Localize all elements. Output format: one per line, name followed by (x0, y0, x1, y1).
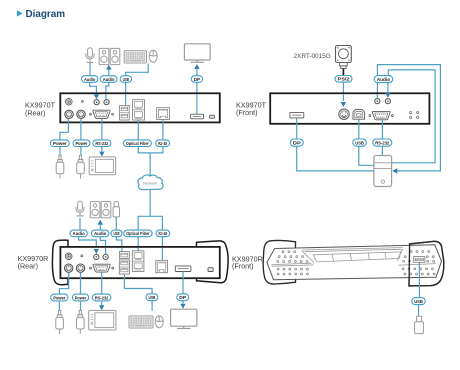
svg-text:(Front): (Front) (232, 262, 254, 271)
wire power socket 2 to Power pill (80, 119, 82, 140)
wire Audio pill to audio-out jack R (100, 237, 105, 247)
wire tail to front jack1 (376, 94, 378, 98)
wire junction to Optical Fiber pill (R) (138, 216, 150, 230)
power socket 2 R-rear (DC power socket) (76, 264, 84, 272)
audio-in jack R-rear (audio jack) (94, 254, 99, 259)
wire monitor arrow line (196, 69, 198, 75)
RS-232 DB9 T-rear (DB9 serial port) (89, 110, 113, 118)
label pill "USB" (usb pill top) (120, 76, 131, 83)
label pill "USB" (usb pill R top) (111, 230, 122, 237)
wire DP pill to DP port (196, 82, 198, 93)
power socket 1 T-rear (DC power socket) (65, 110, 73, 118)
grounding terminal R-rear (grounding terminal) (65, 253, 72, 260)
left ventilation dot grid (277, 251, 309, 275)
keyboard (bottom group) (keyboard icon) (129, 316, 153, 328)
audio-out jack R-rear (audio jack) (103, 254, 108, 259)
monitor DP (top group) (monitor icon) (184, 44, 210, 63)
svg-text:Diagram: Diagram (26, 9, 66, 20)
svg-text:Audio: Audio (73, 231, 85, 237)
label pill "RS-232" (rs232 pill R) (92, 294, 111, 301)
USB flash drive (bottom-right) (USB flash drive icon) (415, 316, 424, 333)
svg-text:RS-232: RS-232 (375, 140, 389, 146)
label pill "Audio" (audio spk pill R) (92, 230, 109, 237)
svg-text:USB: USB (414, 299, 423, 305)
DP port T-rear (DisplayPort) (191, 114, 204, 119)
microphone (top group) (microphone icon) (86, 48, 94, 63)
title bullet (17, 10, 23, 16)
wire DP pill to monitor R (182, 301, 184, 304)
DP port R-rear (DisplayPort) (175, 266, 191, 272)
device KX9970R (Rear) left wing (52, 240, 68, 285)
wire USB pill to computer (359, 146, 374, 165)
label pill "Audio" (audio mic pill R) (70, 230, 87, 237)
wire tail to audio-out jack T-rear (105, 94, 107, 99)
svg-text:RJ-45: RJ-45 (159, 231, 168, 237)
arrowhead to monitor (194, 64, 199, 69)
front grille band (272, 248, 437, 267)
arrowhead into front jack2 (385, 93, 390, 98)
wire RJ-45 pill to junction (150, 147, 163, 153)
arrowhead to speakers 2 (98, 220, 103, 225)
RJ-45 port R-rear (RJ-45 LAN port) (156, 260, 168, 272)
power adapter 2 (top group) (power adapter plug icon) (77, 155, 85, 178)
RS-232 DB9 T-front (DB9 serial port) (369, 111, 393, 119)
RS-232 DB9 R-rear (DB9 serial port) (90, 264, 114, 272)
DP port T-front (DisplayPort) (290, 112, 304, 118)
svg-text:USB: USB (355, 140, 364, 146)
svg-text:DP: DP (194, 77, 201, 83)
wire audio line A up-over-right (377, 65, 440, 171)
wire DP R to DP pill (182, 272, 184, 294)
wire RS-232 pill to computer top (381, 146, 383, 155)
arrowhead into monitor R (180, 304, 185, 309)
label pill "PS/2" (ps2 pill) (335, 76, 352, 83)
mouse (top group) (mouse icon) (149, 50, 157, 62)
svg-text:Power: Power (76, 141, 88, 147)
wire DB9 to RS-232 pill (101, 119, 103, 140)
wire DB9 R to RS-232 pill (101, 272, 103, 294)
USB-B port T-front (USB type-B port) (353, 110, 365, 120)
label pill "DP" (dp pill top) (191, 76, 202, 83)
wire Audio pill to audio-in jack (90, 82, 97, 93)
PS/2 cable (342, 69, 344, 76)
label pill "DP" (dp pill R) (177, 294, 189, 301)
svg-text:(Rear): (Rear) (18, 262, 38, 271)
wire audio line B up-over-right (388, 70, 435, 163)
wire tail to USB ports T-rear (125, 94, 127, 105)
wire mic2 to Audio pill (79, 218, 81, 230)
svg-text:Optical Fiber: Optical Fiber (126, 231, 150, 236)
wire Audio pill to audio-in jack R (79, 237, 97, 247)
svg-text:Network: Network (143, 181, 157, 186)
reset pinhole T-rear (82, 101, 84, 103)
svg-text:(Rear): (Rear) (25, 108, 45, 117)
audio-in jack T-rear (audio jack) (94, 100, 99, 105)
speaker L (bottom group) (speaker icon) (90, 202, 100, 218)
svg-text:DP: DP (179, 295, 187, 301)
device KX9970T (Rear) chassis (60, 93, 220, 122)
svg-text:USB: USB (123, 77, 130, 83)
svg-text:Power: Power (53, 295, 65, 301)
svg-text:Power: Power (53, 141, 67, 147)
audio-out jack T-rear (audio jack) (104, 100, 109, 105)
label pill "Optical Fiber" (optical fiber pill T) (123, 140, 151, 147)
wire front USB port to USB pill (418, 263, 420, 298)
speaker L (top group) (speaker icon) (99, 48, 109, 64)
wire tail to USB port R-rear (121, 248, 123, 252)
wire USB pill to flash drive (418, 305, 420, 316)
arrowhead into PS/2 port (341, 102, 346, 107)
svg-text:Optical Fiber: Optical Fiber (126, 141, 149, 146)
wire power socket 1R to Power pill (59, 273, 68, 294)
wire RJ45 to RJ-45 pill (162, 120, 164, 140)
arrowhead into audio-in jack R-rear (94, 249, 99, 254)
wire Audio pill to audio-out jack (106, 82, 109, 93)
svg-text:RS-232: RS-232 (95, 141, 108, 147)
wire USB pill to USB ports (125, 82, 127, 93)
device KX9970R (Front) right wing outline redraw (409, 241, 444, 286)
grounding terminal T-rear (grounding terminal) (66, 98, 73, 105)
device KX9970R (Front) face (267, 245, 442, 280)
PS/2 port T-front (PS/2 port) (339, 109, 349, 119)
arrowhead into audio-in jack T-rear (94, 94, 99, 99)
wire junction to RJ-45 pill (R) (150, 216, 162, 230)
label pill "Audio" (audio pill front) (374, 76, 393, 83)
wire Power pill to plug 2 (80, 147, 82, 156)
wire fiber to Optical Fiber pill (137, 120, 139, 140)
wire tail to PS/2 port (342, 94, 344, 101)
arrowhead into touch panel R (99, 305, 104, 310)
front audio jack 2 (audio jack) (385, 99, 390, 104)
speaker R (top group) (speaker icon) (110, 48, 120, 64)
wire USB-B to USB pill front (358, 119, 360, 138)
svg-text:Audio: Audio (377, 77, 391, 83)
power adapter 1 (bottom group) (power adapter plug icon) (56, 310, 64, 333)
LED indicators T-front (410, 112, 419, 119)
front audio jack 1 (audio jack) (375, 99, 380, 104)
right ventilation dot grid (402, 251, 435, 275)
wire power socket 2R to Power pill (80, 273, 82, 294)
computer tower (374, 156, 392, 187)
svg-text:2XRT-0015G: 2XRT-0015G (294, 53, 331, 60)
svg-text:Audio: Audio (103, 77, 115, 83)
touch panel (bottom group) (serial touch panel icon) (89, 310, 116, 330)
label pill "RS-232" (rs232 pill front) (373, 139, 392, 146)
wire Audio pill to front jack2 (arrow) (387, 83, 389, 93)
wire junction to cloud (149, 153, 151, 176)
wire dual USB R to USB pill (124, 274, 152, 294)
PS/2 connector 2XRT-0015G icon (336, 46, 352, 69)
power socket 2 T-rear (DC power socket) (77, 110, 85, 118)
svg-text:Audio: Audio (94, 231, 106, 237)
USB port R-front (USB type-A port) (414, 257, 425, 263)
wire RJ-45 pill to RJ45 port R (161, 237, 163, 246)
arrowhead to speakers (106, 65, 111, 70)
microphone (bottom group) (microphone icon) (76, 201, 84, 216)
wire DP port to DP pill front (296, 118, 298, 139)
device KX9970T (Front) chassis (270, 93, 429, 124)
label pill "RJ-45" (rj45 pill R) (156, 230, 170, 237)
wire RS-232 pill to touch panel (101, 147, 103, 152)
wire speaker2 arrow line (99, 225, 101, 230)
wire Power pill to plug 1R (58, 302, 60, 310)
label pill "USB" (usb pill R bottom) (146, 294, 158, 301)
label pill "Power" (power pill 2 R) (72, 294, 88, 301)
svg-text:RJ-45: RJ-45 (158, 141, 167, 147)
wire Power pill to plug 1 (59, 147, 61, 156)
label pill "Optical Fiber" (optical fiber pill R) (124, 230, 152, 237)
device KX9970R (Rear) right wing (197, 241, 229, 283)
label pill "Audio" (audio spk pill) (100, 76, 117, 83)
service port R-rear (service port) (208, 268, 213, 272)
USB ports T-rear (dual USB type-A ports) (120, 106, 130, 120)
svg-text:USB: USB (149, 295, 156, 301)
wire PS/2 pill to PS/2 port (342, 82, 344, 93)
device KX9970R (Front) right wing fill (409, 241, 444, 286)
svg-text:USB: USB (114, 231, 120, 237)
monitor (bottom group) (monitor icon) (171, 309, 197, 328)
svg-text:DP: DP (293, 140, 302, 146)
wire mouse/keyboard to USB pill (126, 64, 149, 76)
wire flash to USB pill R (115, 217, 117, 230)
label pill "USB" (usb pill front) (353, 139, 367, 146)
wire cloud to lower junction (149, 190, 151, 216)
speaker R (bottom group) (speaker icon) (101, 202, 111, 218)
label pill "RS-232" (rs232 pill T) (93, 140, 111, 147)
wire tail to DP port T-rear (196, 94, 198, 114)
dual USB ports R-rear (dual USB type-A ports) (119, 260, 129, 274)
wire DP pill to computer (297, 146, 374, 171)
wire DB9 front to RS-232 pill (381, 120, 383, 139)
label pill "RJ-45" (rj45 pill T) (156, 140, 170, 147)
wire RS-232 pill to touch panel R (101, 302, 103, 305)
label pill "Audio" (audio mic pill) (82, 76, 98, 83)
power socket 1 R-rear (DC power socket) (65, 264, 73, 272)
optical fiber ports T-rear (dual optical fiber SFP ports) (133, 100, 145, 120)
wire power socket 1 to Power pill (60, 119, 69, 140)
reset pinhole R-rear (81, 255, 83, 257)
mouse (bottom group) (mouse icon) (155, 316, 163, 328)
touch panel (top group) (serial touch panel icon) (89, 157, 115, 175)
USB flash drive (bottom-left group) (USB flash drive icon) (113, 202, 119, 217)
wire mic to Audio pill (89, 63, 91, 76)
network cloud (138, 175, 163, 190)
svg-text:RS-232: RS-232 (95, 295, 109, 301)
svg-text:Audio: Audio (84, 77, 95, 83)
wire tail to fiber ports R-rear (137, 248, 139, 251)
keyboard (top group) (keyboard icon) (124, 51, 146, 63)
wire Optical Fiber pill to fiber ports R (137, 237, 139, 246)
wire speaker arrow line (108, 70, 110, 76)
device KX9970R (Front) left wing (263, 240, 295, 284)
arrowhead into touch panel (99, 152, 104, 157)
label pill "DP" (dp pill front) (290, 139, 303, 146)
power adapter 2 (bottom group) (power adapter plug icon) (77, 310, 85, 333)
device KX9970R (Rear) chassis (60, 247, 219, 278)
wire Optical Fiber pill to junction (138, 147, 150, 153)
svg-text:Power: Power (75, 295, 86, 301)
wire USB pill to USB port R (116, 237, 122, 247)
wire Audio pill to front jack1 (376, 83, 378, 93)
wire USB pill to keyboard/mouse (151, 301, 153, 311)
wire Power pill to plug 2R (80, 302, 82, 310)
wire tail to audio-out jack R-rear (105, 248, 107, 254)
RJ-45 port T-rear (RJ-45 LAN port) (157, 108, 170, 120)
label pill "Power" (power pill 1 T) (50, 140, 69, 147)
svg-text:PS/2: PS/2 (338, 77, 350, 83)
svg-text:(Front): (Front) (236, 108, 258, 117)
USB port R-rear (USB type-A port) (119, 252, 129, 259)
service port T-rear (service port) (210, 115, 215, 118)
label pill "USB" (usb pill R-front) (412, 298, 426, 305)
label pill "Power" (power pill 1 R) (51, 294, 68, 301)
optical fiber ports R-rear (dual optical fiber SFP ports) (132, 251, 144, 272)
wire tail to RJ45 port R-rear (161, 248, 163, 260)
label pill "Power" (power pill 2 T) (73, 140, 90, 147)
power adapter 1 (top group) (power adapter plug icon) (56, 155, 64, 178)
arrowhead into tower right (392, 168, 397, 173)
